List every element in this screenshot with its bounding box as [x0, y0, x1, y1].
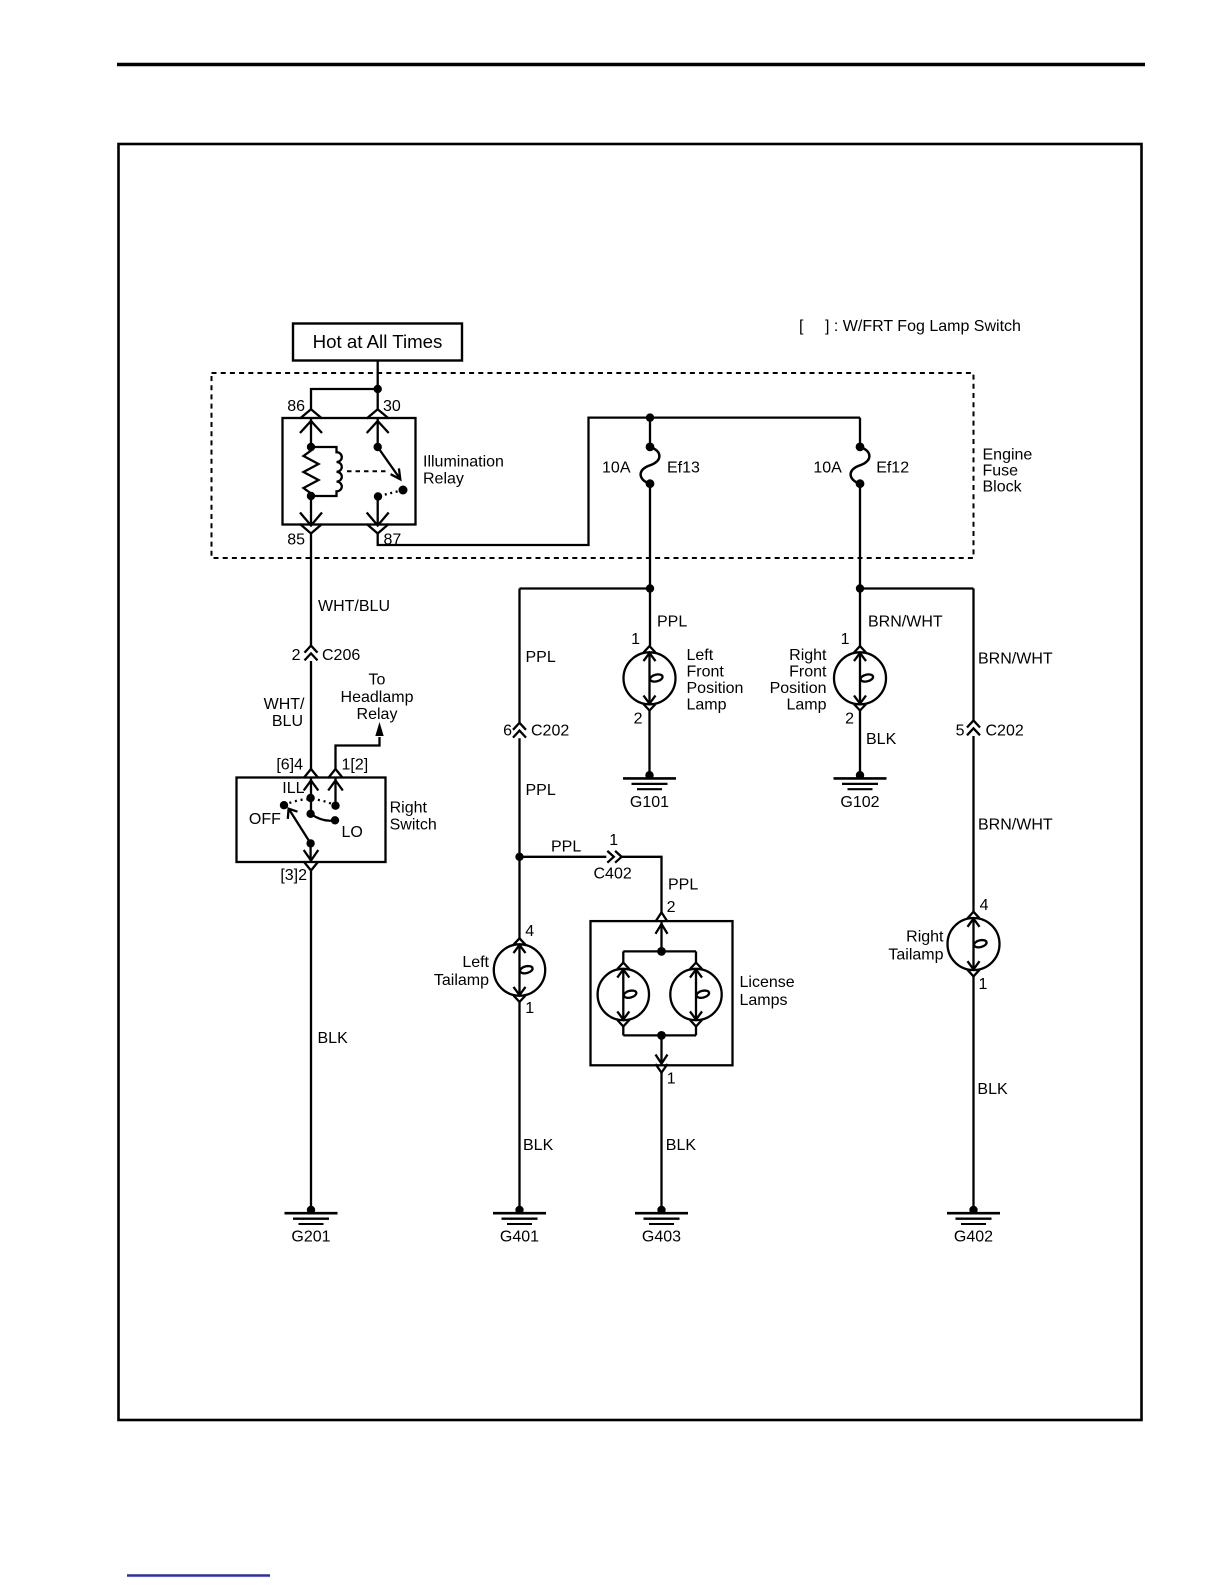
- relay dotted contact link: [382, 490, 404, 496]
- svg-text:Hot at All Times: Hot at All Times: [313, 331, 443, 352]
- switch pin 4 chevron: [304, 769, 319, 778]
- wire pin 30 to switch contact: [377, 418, 379, 447]
- wire lamp to G102: [859, 711, 861, 776]
- license lamps name: [740, 974, 795, 1009]
- svg-text:WHT/BLU: WHT/BLU: [318, 598, 390, 615]
- svg-text:PPL: PPL: [657, 614, 687, 631]
- wire below C202 to right tailamp: [972, 736, 974, 912]
- svg-text:G101: G101: [630, 794, 669, 811]
- junction PPL branch: [646, 584, 654, 592]
- ground G101: [623, 771, 676, 811]
- svg-text:5: 5: [956, 723, 965, 740]
- ground G102: [834, 771, 887, 811]
- svg-text:6: 6: [503, 723, 512, 740]
- left front position lamp: [624, 646, 676, 710]
- svg-text:Headlamp: Headlamp: [341, 689, 414, 706]
- switch pin 2c chevron: [328, 769, 343, 778]
- svg-text:Relay: Relay: [357, 706, 398, 723]
- relay switch arm: [378, 447, 400, 478]
- wire branch to relay pin 86: [311, 389, 378, 410]
- svg-text:OFF: OFF: [249, 811, 281, 828]
- right front position lamp name: [770, 647, 827, 714]
- svg-text:Relay: Relay: [423, 471, 464, 488]
- switch bottom dot: [306, 839, 314, 847]
- license exit arrow: [656, 1055, 668, 1064]
- switch OFF pivot dot: [280, 801, 288, 809]
- svg-text:WHT/: WHT/: [264, 696, 305, 713]
- license entry arrow: [656, 924, 668, 934]
- switch ILL dot: [306, 794, 314, 802]
- wire to C402: [520, 856, 607, 858]
- left license lamp: [598, 963, 649, 1027]
- svg-text:Switch: Switch: [390, 817, 437, 834]
- svg-text:BRN/WHT: BRN/WHT: [978, 817, 1053, 834]
- wire C206 to right switch: [310, 661, 312, 769]
- fuse Ef13: [602, 443, 700, 489]
- pin 85 chevron: [300, 524, 322, 534]
- relay contact 87 dot: [374, 492, 382, 500]
- svg-text:4: 4: [980, 897, 989, 914]
- svg-text:85: 85: [287, 532, 305, 549]
- junction license bottom bus: [657, 1031, 666, 1040]
- svg-text:Ef12: Ef12: [876, 460, 909, 477]
- license entry chevron: [656, 912, 668, 921]
- right switch name: [390, 800, 437, 834]
- wire left tailamp to G401: [518, 1002, 520, 1210]
- svg-text:Lamps: Lamps: [740, 992, 788, 1009]
- switch exit arrow: [304, 850, 319, 861]
- svg-text:1[2]: 1[2]: [342, 757, 369, 774]
- connector C202 pin 6: [503, 723, 569, 740]
- left tailamp name: [434, 954, 490, 989]
- connector C402: [594, 832, 632, 883]
- switch pin 4 entry arrow: [304, 781, 319, 791]
- svg-text:PPL: PPL: [668, 877, 698, 894]
- svg-text:[3]2: [3]2: [280, 867, 307, 884]
- relay coil zigzag: [304, 447, 319, 496]
- wire relay 85 to C206: [310, 534, 312, 646]
- svg-text:PPL: PPL: [526, 649, 556, 666]
- svg-text:G402: G402: [954, 1229, 993, 1246]
- svg-text:Right: Right: [390, 800, 428, 817]
- switch LO link: [311, 814, 335, 821]
- svg-text:[6]4: [6]4: [276, 757, 303, 774]
- svg-text:Front: Front: [789, 664, 827, 681]
- svg-text:10A: 10A: [602, 460, 631, 477]
- svg-text:1: 1: [525, 1000, 534, 1017]
- svg-text:BLK: BLK: [866, 731, 897, 748]
- svg-text:Tailamp: Tailamp: [888, 947, 943, 964]
- footer blue rule: [127, 1574, 270, 1576]
- wire BRN/WHT branch down right: [972, 589, 974, 721]
- svg-text:PPL: PPL: [526, 782, 556, 799]
- svg-text:Front: Front: [687, 664, 725, 681]
- wire pin 87 to fuse feed line: [378, 418, 860, 545]
- svg-text:1: 1: [609, 832, 618, 849]
- svg-text:Lamp: Lamp: [687, 697, 727, 714]
- switch dotted ILL arc: [284, 799, 336, 805]
- ground G401: [493, 1206, 546, 1246]
- svg-text:C206: C206: [322, 647, 360, 664]
- relay U1 box: [283, 418, 416, 525]
- svg-text:To: To: [369, 672, 386, 689]
- license exit chevron: [656, 1064, 668, 1073]
- svg-text:Block: Block: [983, 479, 1023, 496]
- svg-text:Fuse: Fuse: [983, 463, 1019, 480]
- svg-text:BLU: BLU: [272, 713, 303, 730]
- switch dot D: [306, 810, 314, 818]
- fuse Ef13 top junction dot: [646, 413, 654, 421]
- relay contact dot 87a: [399, 486, 408, 495]
- svg-text:C202: C202: [531, 723, 569, 740]
- wire bus to left license lamp: [622, 951, 624, 962]
- svg-text:Tailamp: Tailamp: [434, 972, 489, 989]
- license bottom bus: [623, 1034, 696, 1036]
- right license lamp: [670, 963, 721, 1027]
- svg-text:1: 1: [667, 1071, 676, 1088]
- pin 86 chevron: [300, 409, 322, 418]
- svg-text:BLK: BLK: [977, 1081, 1008, 1098]
- connector C202 pin 5: [956, 721, 1024, 740]
- wire BRN/WHT branch to right: [860, 587, 974, 589]
- wire PPL branch to left: [520, 587, 651, 589]
- svg-text:BRN/WHT: BRN/WHT: [868, 614, 943, 631]
- svg-text:BRN/WHT: BRN/WHT: [978, 651, 1053, 668]
- wire license entry to bus: [660, 921, 662, 951]
- svg-text:1: 1: [841, 631, 850, 648]
- wire right license lamp to bottom bus: [695, 1026, 697, 1035]
- right tailamp name: [888, 929, 944, 964]
- svg-text:[: [: [799, 318, 804, 335]
- svg-text:Left: Left: [462, 954, 489, 971]
- svg-text:LO: LO: [342, 824, 363, 841]
- coil top node dot: [307, 443, 315, 451]
- wire pin 86 to coil: [310, 418, 312, 447]
- switch pin 2c entry arrow: [328, 781, 343, 791]
- wire below C202 to left tailamp: [518, 738, 520, 938]
- svg-text:Lamp: Lamp: [786, 697, 826, 714]
- wire switch bottom to pin: [309, 843, 311, 861]
- license lamps box: [591, 921, 733, 1065]
- relay name label: [423, 454, 504, 488]
- pin 30 entry arrow: [367, 421, 389, 433]
- svg-text:] : W/FRT Fog Lamp Switch: ] : W/FRT Fog Lamp Switch: [825, 318, 1021, 335]
- switch exit chevron: [304, 862, 319, 871]
- engine fuse block label: [983, 447, 1033, 496]
- svg-text:30: 30: [383, 398, 401, 415]
- pin 87 chevron: [367, 524, 389, 534]
- wire hot feed to relay pin 30: [377, 361, 379, 410]
- node Hot at All Times box: [293, 324, 462, 361]
- wire bus to right license lamp: [695, 951, 697, 962]
- wire contact to pin 87: [377, 497, 379, 525]
- relay switch arm arrowhead: [391, 468, 401, 479]
- svg-text:Ef13: Ef13: [667, 460, 700, 477]
- svg-text:BLK: BLK: [523, 1137, 554, 1154]
- svg-text:2: 2: [292, 647, 301, 664]
- node To Headlamp Relay label: [341, 672, 414, 724]
- svg-text:Engine: Engine: [983, 447, 1033, 464]
- wire WHT/BLU 2-line label: [264, 696, 305, 730]
- svg-text:1: 1: [979, 976, 988, 993]
- svg-text:86: 86: [287, 398, 305, 415]
- right front position lamp: [834, 646, 886, 710]
- wire pin 4 into switch: [310, 778, 312, 814]
- switch dot B: [331, 802, 339, 810]
- svg-text:1: 1: [631, 631, 640, 648]
- svg-text:Right: Right: [906, 929, 944, 946]
- svg-text:Position: Position: [687, 680, 744, 697]
- svg-text:PPL: PPL: [551, 839, 581, 856]
- relay switch pivot dot: [374, 443, 382, 451]
- svg-text:Illumination: Illumination: [423, 454, 504, 471]
- junction license top bus: [657, 947, 666, 956]
- svg-text:G403: G403: [642, 1229, 681, 1246]
- license top bus: [623, 950, 696, 952]
- svg-text:2: 2: [667, 899, 676, 916]
- switch lever: [289, 809, 311, 843]
- wire C402 to license lamps: [622, 857, 662, 914]
- svg-text:Left: Left: [687, 647, 714, 664]
- svg-text:License: License: [740, 974, 795, 991]
- switch lever arrowhead: [288, 809, 298, 819]
- wire license to G403: [660, 1073, 662, 1210]
- svg-text:Right: Right: [789, 647, 827, 664]
- junction C402 branch: [515, 853, 523, 861]
- wire coil to pin 85: [310, 496, 312, 524]
- svg-text:2: 2: [845, 711, 854, 728]
- engine fuse block dashed boundary: [212, 373, 974, 558]
- coil bottom node dot: [307, 492, 315, 500]
- wire switch to G201: [310, 871, 312, 1210]
- svg-text:BLK: BLK: [318, 1030, 349, 1047]
- pin 30 chevron: [367, 409, 389, 418]
- fuse Ef12: [813, 443, 909, 489]
- wire lamp to G101: [648, 711, 650, 776]
- svg-text:G201: G201: [291, 1229, 330, 1246]
- junction hot feed: [374, 385, 382, 393]
- wire pin 2c into switch: [334, 778, 336, 806]
- ground G402: [947, 1206, 1000, 1246]
- svg-text:BLK: BLK: [666, 1137, 697, 1154]
- right switch box: [237, 778, 386, 863]
- wire to headlamp relay: [336, 737, 380, 769]
- wire feed to fuse Ef12: [859, 418, 861, 447]
- relay coil winding: [311, 447, 342, 496]
- ground G403: [635, 1206, 688, 1246]
- ground G201: [285, 1206, 338, 1246]
- coil-switch dashed link: [347, 470, 389, 472]
- svg-text:10A: 10A: [813, 460, 842, 477]
- wire fuse Ef13 down to left front position lamp: [649, 484, 651, 646]
- left tailamp: [494, 938, 545, 1002]
- svg-text:G102: G102: [840, 794, 879, 811]
- top rule: [117, 63, 1145, 66]
- svg-text:C402: C402: [594, 866, 632, 883]
- svg-text:4: 4: [525, 923, 534, 940]
- wire right tailamp to G402: [972, 976, 974, 1210]
- connector C206 pin 2: [292, 646, 361, 664]
- headlamp relay arrowhead: [375, 722, 383, 736]
- pin 86 entry arrow: [300, 421, 322, 433]
- wire license exit: [660, 1035, 662, 1062]
- right tailamp: [948, 912, 1000, 977]
- wire left license lamp to bottom bus: [622, 1026, 624, 1035]
- svg-text:ILL: ILL: [282, 780, 304, 797]
- legend W/FRT Fog Lamp Switch: [799, 318, 1021, 335]
- svg-text:2: 2: [634, 711, 643, 728]
- wire feed to fuse Ef13: [649, 418, 651, 447]
- svg-text:Position: Position: [770, 680, 827, 697]
- wire PPL branch down left: [518, 589, 520, 723]
- page border frame: [119, 144, 1142, 1420]
- svg-text:G401: G401: [500, 1229, 539, 1246]
- junction BRN/WHT branch: [856, 584, 864, 592]
- svg-text:C202: C202: [986, 723, 1024, 740]
- switch dot LO: [331, 816, 339, 824]
- pin 87 exit arrow: [367, 513, 389, 526]
- wire fuse Ef12 down to right front position lamp: [859, 484, 861, 646]
- pin 85 exit arrow: [300, 513, 322, 526]
- left front position lamp name: [687, 647, 744, 714]
